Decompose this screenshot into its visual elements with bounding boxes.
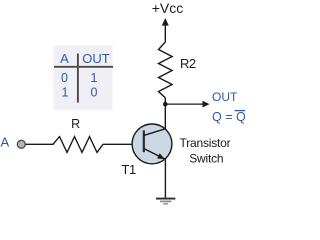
svg-text:T1: T1 (122, 162, 136, 177)
resistor R2 (159, 42, 173, 98)
svg-text:Switch: Switch (189, 151, 223, 165)
Vcc arrow (162, 18, 169, 26)
svg-text:OUT: OUT (212, 90, 238, 104)
node OUT junction (163, 102, 168, 107)
svg-text:1: 1 (62, 85, 69, 99)
svg-text:OUT: OUT (82, 51, 110, 66)
resistor R (53, 137, 103, 153)
svg-text:0: 0 (61, 71, 68, 85)
truth table column divider (77, 54, 79, 103)
wire Vcc arrow to R2 (164, 25, 166, 43)
overline on Qbar (235, 110, 245, 112)
OUT arrowhead (203, 101, 210, 108)
transistor T1 (132, 124, 172, 164)
svg-text:+Vcc: +Vcc (152, 0, 184, 16)
svg-text:1: 1 (91, 71, 98, 85)
wire emitter to ground (164, 159, 166, 198)
truth table header underline (54, 66, 113, 68)
wire R2 to collector (164, 98, 166, 129)
svg-text:R2: R2 (180, 56, 196, 71)
ground (156, 199, 175, 204)
svg-text:R: R (71, 117, 80, 131)
wire R to base (103, 143, 144, 145)
svg-text:A: A (1, 135, 10, 150)
wire terminal to R (26, 143, 54, 145)
svg-text:A: A (60, 51, 69, 66)
input terminal (17, 140, 25, 148)
svg-text:Q = Q: Q = Q (212, 110, 246, 124)
truth table background (54, 46, 113, 111)
svg-text:Transistor: Transistor (180, 136, 231, 150)
wire junction to OUT arrow (165, 103, 203, 105)
svg-text:0: 0 (91, 85, 98, 99)
